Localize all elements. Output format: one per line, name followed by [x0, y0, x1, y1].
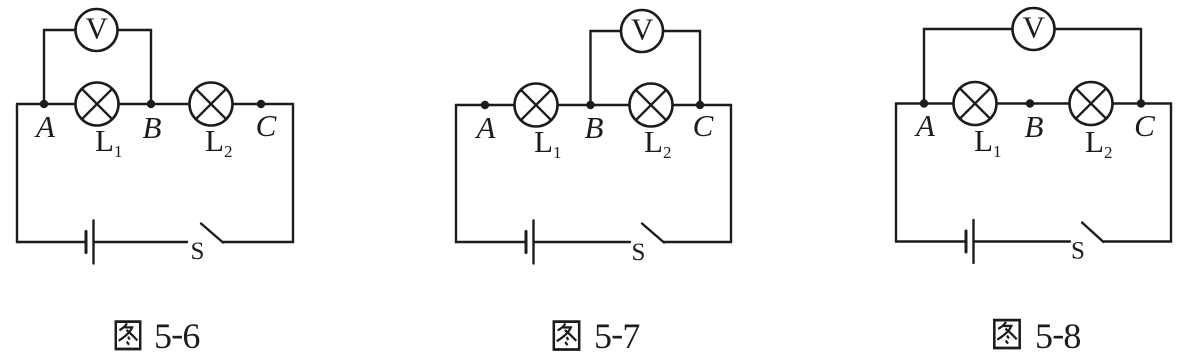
voltmeter V (fig 5-8) [1013, 8, 1055, 50]
wire switch-to-right-wall (fig 5-8) [1104, 104, 1172, 242]
node B dot (fig 5-8) [1026, 99, 1034, 107]
node B junction dot (fig 5-7) [586, 101, 594, 109]
svg-text:5-7: 5-7 [594, 314, 640, 357]
node C junction dot (fig 5-8) [1137, 99, 1145, 107]
wire left wall (fig 5-6) [17, 104, 86, 242]
battery cell (fig 5-6): long plate [92, 221, 94, 264]
wire voltmeter loop A-to-C (fig 5-8) [924, 29, 1141, 104]
svg-text:L1: L1 [974, 123, 1001, 161]
wire battery-to-switch (fig 5-8) [974, 240, 1071, 242]
svg-text:A: A [34, 109, 56, 144]
wire main top A-B-C (fig 5-6) [17, 103, 293, 105]
svg-text:S: S [1071, 238, 1085, 265]
voltmeter V (fig 5-6) [76, 9, 118, 51]
svg-text:L1: L1 [534, 124, 561, 162]
svg-text:L2: L2 [644, 124, 671, 162]
wire voltmeter loop B-to-C (fig 5-7) [591, 31, 701, 105]
wire left wall (fig 5-7) [456, 105, 526, 242]
svg-text:5-6: 5-6 [154, 314, 200, 357]
battery cell (fig 5-6): short plate [85, 232, 88, 253]
lamp L2 (fig 5-6) [190, 83, 233, 126]
svg-text:C: C [1134, 108, 1155, 143]
node C junction dot (fig 5-7) [696, 101, 704, 109]
wire battery-to-switch (fig 5-6) [94, 241, 188, 243]
svg-text:B: B [1025, 109, 1044, 144]
svg-text:S: S [632, 239, 646, 266]
svg-text:L2: L2 [1085, 124, 1112, 162]
svg-text:A: A [914, 108, 936, 143]
node C dot (fig 5-6) [257, 100, 265, 108]
switch S blade (fig 5-6) [201, 224, 223, 243]
svg-text:V: V [631, 12, 654, 47]
lamp L1 (fig 5-8) [954, 82, 997, 125]
svg-text:S: S [191, 238, 205, 265]
node B junction dot (fig 5-6) [147, 100, 155, 108]
svg-text:L2: L2 [205, 123, 232, 161]
svg-text:V: V [86, 11, 109, 46]
wire switch-to-right-wall (fig 5-6) [223, 104, 293, 242]
wire switch-to-right-wall (fig 5-7) [664, 105, 731, 242]
lamp L1 (fig 5-7) [515, 84, 558, 127]
wire voltmeter loop A-to-B (fig 5-6) [44, 30, 151, 104]
lamp L2 (fig 5-7) [630, 84, 673, 127]
lamp L1 (fig 5-6) [76, 83, 119, 126]
svg-text:V: V [1023, 10, 1046, 45]
wire left wall (fig 5-8) [896, 104, 966, 242]
svg-text:5-8: 5-8 [1035, 314, 1081, 357]
battery cell (fig 5-7): long plate [532, 221, 534, 264]
lamp L2 (fig 5-8) [1070, 82, 1113, 125]
node A junction dot (fig 5-8) [920, 99, 928, 107]
wire battery-to-switch (fig 5-7) [534, 241, 631, 243]
node A dot (fig 5-7) [481, 101, 489, 109]
caption glyph TU (fig 5-6) [116, 322, 140, 349]
svg-text:C: C [693, 108, 714, 143]
battery cell (fig 5-8): short plate [965, 231, 968, 252]
svg-text:B: B [143, 110, 162, 145]
svg-text:C: C [256, 108, 277, 143]
svg-text:A: A [475, 110, 497, 145]
caption glyph TU (fig 5-7) [554, 322, 579, 350]
switch S blade (fig 5-7) [642, 224, 664, 243]
caption glyph TU (fig 5-8) [994, 320, 1019, 348]
battery cell (fig 5-8): long plate [972, 220, 974, 263]
battery cell (fig 5-7): short plate [525, 232, 528, 253]
switch S blade (fig 5-8) [1082, 223, 1104, 243]
wire main top A-B-C (fig 5-8) [896, 102, 1171, 104]
svg-text:L1: L1 [95, 123, 122, 161]
node A junction dot (fig 5-6) [40, 100, 48, 108]
svg-text:B: B [585, 110, 604, 145]
wire main top A-B-C (fig 5-7) [456, 104, 731, 106]
voltmeter V (fig 5-7) [621, 10, 663, 52]
